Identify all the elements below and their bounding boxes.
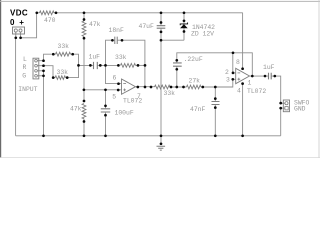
wire pin 8 supply <box>242 13 244 69</box>
svg-text:47uF: 47uF <box>139 23 155 30</box>
border frame <box>0 0 320 158</box>
resistor 47k divider top <box>83 13 85 21</box>
wire op-amp2 output <box>250 76 281 103</box>
svg-text:VDC: VDC <box>10 9 28 18</box>
svg-text:INPUT: INPUT <box>18 86 37 93</box>
svg-text:27k: 27k <box>189 78 201 85</box>
svg-text:18nF: 18nF <box>109 27 125 34</box>
wire pin 2 feedback <box>233 53 236 73</box>
resistor 27k <box>187 85 202 89</box>
connector J2 INPUT <box>33 58 44 79</box>
wire pin 4 ground <box>242 84 244 136</box>
capacitor 47nF <box>214 87 216 136</box>
resistor 33k right input <box>44 65 79 77</box>
resistor 470 <box>40 11 55 15</box>
svg-text:33k: 33k <box>164 90 176 97</box>
ground symbol <box>160 136 162 144</box>
svg-text:47k: 47k <box>89 21 101 28</box>
resistor 33k left input <box>44 54 79 65</box>
svg-text:2: 2 <box>225 69 229 76</box>
wire ground rail <box>16 38 281 136</box>
svg-text:47nF: 47nF <box>190 106 206 113</box>
svg-text:100uF: 100uF <box>115 109 134 116</box>
svg-text:1: 1 <box>248 80 252 87</box>
capacitor 18nF feedback <box>106 40 145 87</box>
svg-text:33k: 33k <box>57 69 69 76</box>
svg-text:3: 3 <box>226 77 230 84</box>
capacitor .22uF feedback2 <box>177 53 253 87</box>
svg-text:ZD 12V: ZD 12V <box>191 31 214 38</box>
svg-text:GND: GND <box>294 106 306 113</box>
capacitor 1uF output <box>269 73 272 80</box>
wire top +12V rail <box>37 12 243 14</box>
svg-text:6: 6 <box>113 74 117 81</box>
svg-text:47k: 47k <box>70 106 82 113</box>
op-amp U1A TL072 <box>122 79 136 94</box>
svg-text:5: 5 <box>112 93 116 100</box>
svg-text:33k: 33k <box>115 54 127 61</box>
op-amp U1B TL072 <box>236 68 250 83</box>
wire VDC+ to top rail <box>21 13 37 38</box>
svg-text:.22uF: .22uF <box>184 56 203 63</box>
svg-text:33k: 33k <box>58 43 70 50</box>
svg-text:8: 8 <box>236 59 240 66</box>
capacitor 47uF supply <box>160 13 162 136</box>
svg-text:7: 7 <box>137 93 141 100</box>
zener diode ZD 1N4742 12V <box>161 13 184 40</box>
wire to pin 6 <box>106 65 122 83</box>
svg-text:1uF: 1uF <box>263 64 275 71</box>
capacitor 100uF bias <box>105 90 107 136</box>
svg-text:1uF: 1uF <box>89 53 101 60</box>
resistor 33k mid <box>155 85 171 89</box>
resistor 47k divider bottom <box>82 104 86 119</box>
svg-text:TL072: TL072 <box>247 88 266 95</box>
svg-text:G: G <box>22 73 26 80</box>
svg-text:R: R <box>23 64 27 71</box>
svg-text:470: 470 <box>44 17 56 24</box>
resistor 33k series <box>121 64 136 68</box>
connector J3 SWFO output <box>281 100 290 112</box>
svg-text:4: 4 <box>237 88 241 95</box>
capacitor 1uF input <box>79 64 119 66</box>
wire op-amp1 output <box>136 79 236 87</box>
wire input G to ground <box>43 71 45 136</box>
svg-text:L: L <box>23 56 27 63</box>
connector J1 VDC <box>13 27 25 38</box>
wire divider tap to pin 5 <box>84 89 122 91</box>
